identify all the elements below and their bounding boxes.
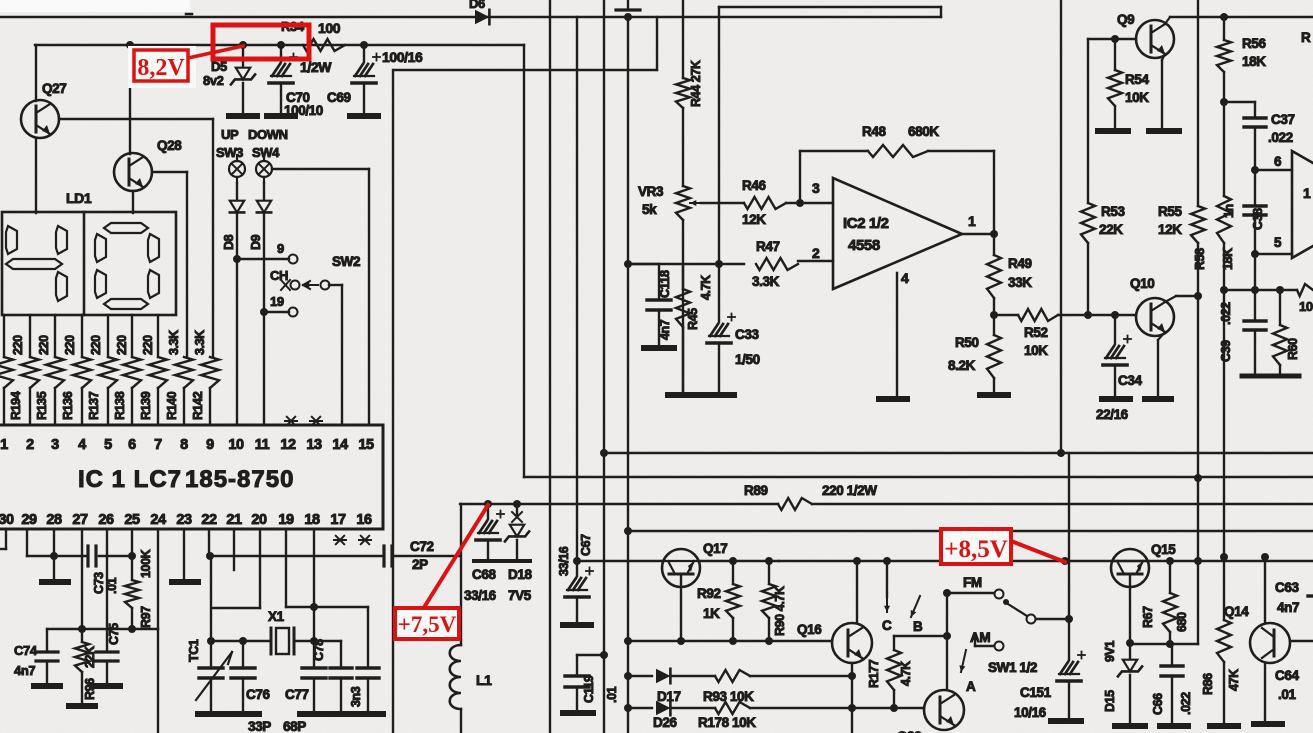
transistor Q16 <box>832 623 872 663</box>
wire B measurement arrow <box>911 596 920 617</box>
wire rail y629 <box>47 628 158 630</box>
resistor R136 220 <box>73 357 91 388</box>
resistor R90 4.7K <box>768 561 770 584</box>
resistor R45 4.7K <box>682 264 684 289</box>
red annotation box +7,5V <box>395 608 459 639</box>
wire R177 top to FM column <box>894 635 947 637</box>
LD1 right digit 0 segments <box>104 223 148 233</box>
diode D9 <box>263 183 265 200</box>
zener diode D5 8v2 <box>242 45 244 66</box>
wire pin25 down <box>131 529 133 556</box>
wire pin30 stub <box>5 529 7 549</box>
wire VR3 wiper to R46 <box>701 202 744 204</box>
node rail641 x628 <box>624 637 632 645</box>
wire bus x719 from top to pin2 node <box>718 7 720 264</box>
wire H1 rail <box>600 449 608 457</box>
LD1 left digit 4 segments <box>6 226 17 254</box>
ground C77 <box>300 711 330 717</box>
transistor Q10 <box>1136 298 1174 336</box>
resistor R92 1K <box>732 561 734 584</box>
capacitor C69 <box>363 45 365 62</box>
wire pin6 to IC3 <box>1255 169 1292 171</box>
resistor R177 4.7K <box>893 636 895 650</box>
node D15 top <box>1126 639 1134 647</box>
ground Q10 <box>1145 396 1171 402</box>
tick mark <box>186 13 192 16</box>
node Q16 emitter R178 <box>848 704 856 712</box>
node +8.5V junction <box>1061 557 1069 565</box>
wire Q14 emitter <box>1264 663 1266 722</box>
node C arrow stub <box>883 557 891 565</box>
ground C75 <box>94 683 120 689</box>
ground Q9 <box>1149 128 1179 134</box>
node R53 bottom <box>1084 311 1092 319</box>
resistor R86 47K <box>1223 557 1225 620</box>
wire Q32 base <box>894 707 924 709</box>
resistor R50 8.2K <box>993 315 995 335</box>
wire top rail L1 <box>0 16 941 18</box>
capacitor C73 <box>86 546 89 566</box>
resistor R34 100 1/2W <box>303 39 345 51</box>
transistor Q17 <box>662 549 700 587</box>
ground D5 <box>229 113 257 119</box>
wire feedback up from pin3 node <box>799 151 801 203</box>
inductor L1 <box>460 504 462 645</box>
wire bus x1224 down <box>1223 290 1225 557</box>
node D9 / terminal 19 <box>260 308 268 316</box>
wire +8.5V rail y561 <box>779 560 1313 562</box>
asterisk below pin16 <box>359 539 371 541</box>
capacitor C63 partial <box>1308 594 1313 597</box>
resistor R44 27K <box>676 78 690 108</box>
ground pin28 <box>42 579 68 585</box>
ground D15 <box>1115 723 1145 729</box>
wire rail y607 pin19 to 3n3 corner <box>286 606 368 608</box>
transistor Q32 <box>924 690 964 730</box>
wire top upper rail <box>719 6 941 8</box>
wire pin22 down <box>208 529 210 556</box>
node C119 tap on x604 <box>600 651 608 659</box>
node C33/R47 junction <box>715 260 723 268</box>
node pin6 line <box>1251 166 1259 174</box>
ground Q14 <box>1254 721 1282 727</box>
ground C69 <box>350 113 378 119</box>
node opamp pin3 <box>796 199 804 207</box>
ground C66 <box>1160 723 1188 729</box>
node output <box>990 230 998 238</box>
red annotation box 8,2V <box>134 50 188 81</box>
wire pin23 to ground <box>183 529 185 580</box>
resistor R58 18K <box>1223 102 1225 196</box>
red annotation rectangle top <box>213 25 309 59</box>
wire rail y556 to C72 <box>210 555 384 557</box>
wire Q17 rail to R92 R90 <box>700 560 779 562</box>
wire R44 to VR3 <box>682 108 684 186</box>
node bus rail561 x1198 <box>1194 557 1202 565</box>
resistor R55 12K <box>1191 206 1205 243</box>
potentiometer VR3 5k <box>676 186 690 220</box>
wire pin24 long down <box>157 529 159 733</box>
transistor Q14 <box>1250 623 1290 663</box>
node L3 C69 <box>360 41 368 49</box>
node R67 bottom <box>1166 640 1174 648</box>
wires resistors to IC1 pins 1-9 <box>3 388 5 425</box>
resistor R48 680K <box>868 145 928 157</box>
display LD1 box <box>2 212 176 315</box>
node D17 on x628 <box>624 672 632 680</box>
wire top-right rail y17 <box>1170 16 1313 18</box>
wire H4 rail <box>628 530 1313 532</box>
ground C119 <box>563 710 593 716</box>
crystal X1 <box>243 640 271 642</box>
wire C119 link <box>577 654 604 656</box>
wire Q10 emitter <box>1158 332 1165 340</box>
wire Q17 emitter <box>680 574 682 641</box>
resistor R46 12K <box>744 197 786 209</box>
node Q17 emitter <box>677 637 685 645</box>
wire to C37 <box>1224 101 1255 103</box>
ground R86 <box>1210 723 1238 729</box>
resistor R135 220 <box>46 357 64 388</box>
node R177 bottom <box>890 704 898 712</box>
resistor R54 10K <box>1114 39 1116 70</box>
capacitor C66 .022 <box>1171 644 1173 666</box>
wire R178 to R177 <box>750 707 894 709</box>
wire pin20 down then left <box>259 529 261 608</box>
node X1 right / C77 top <box>310 637 318 645</box>
wire Q10 collector to bus <box>1165 296 1176 302</box>
node D8 / terminal 9 <box>233 255 241 263</box>
trimmer TC1 <box>207 637 215 645</box>
resistor R140 3.3K <box>175 357 193 388</box>
red annotation leader +7,5V <box>423 505 488 609</box>
wire X1 node to C78 <box>314 640 341 642</box>
wire feedback top left <box>800 150 868 152</box>
wire bus x683 R44/VR3 column top <box>682 0 684 78</box>
capacitor C75 .01 <box>96 650 118 653</box>
wire Q9 collector to top rail <box>1165 17 1170 24</box>
wire left bus x393 down from L2 <box>392 70 394 733</box>
wire Q17 base rail y561 <box>577 560 662 562</box>
node FM line left <box>943 589 951 597</box>
capacitor C70 100/10 <box>280 45 282 62</box>
zener diode D18 7V5 <box>516 504 518 515</box>
resistor R97 100K <box>131 556 133 580</box>
ground R50 <box>980 392 1008 398</box>
resistor R(pin1) 220 <box>0 357 13 388</box>
switch SW1 wiper <box>1003 599 1009 605</box>
resistor R142 3.3K <box>201 357 219 388</box>
capacitor C77 68P <box>313 641 315 668</box>
capacitor C78 <box>340 641 342 668</box>
red annotation leader +8,5V <box>1011 541 1065 562</box>
node H4 start <box>624 527 632 535</box>
resistor R139 220 <box>149 357 167 388</box>
op-amp U2 IC2 1/2 4558 triangle <box>833 178 962 289</box>
wire pin5 to IC3 <box>1255 253 1292 255</box>
wire opamp output <box>962 233 994 235</box>
ground R96 <box>69 703 95 709</box>
node C37 branch <box>1220 98 1228 106</box>
node R97 bottom <box>128 625 136 633</box>
node R54 top <box>1111 35 1119 43</box>
wire Q15 emitter <box>1129 574 1131 643</box>
node pin2 rail at x628 <box>624 260 632 268</box>
transistor Q27 <box>35 45 37 101</box>
resistor R93 10K <box>715 670 750 682</box>
ground C33 <box>704 392 734 398</box>
zener diode D15 9V1 <box>1129 644 1131 658</box>
node Q14 collector <box>1261 553 1269 561</box>
node pin28 rail <box>50 552 58 560</box>
wire bus x1198 <box>1197 0 1199 206</box>
ground C151 <box>1051 718 1081 724</box>
node pin25 / R97 top <box>128 552 136 560</box>
IC U1 IC1 LC7185-8750 box <box>0 425 383 529</box>
wire y290 node line <box>1254 254 1256 290</box>
wire y644 node line <box>1130 643 1198 645</box>
wire Q28 base to pin8 column <box>152 171 187 173</box>
wire D9 to pin11 <box>263 312 265 425</box>
wire feedback top right <box>928 150 994 152</box>
wire pin21 stub <box>233 529 235 570</box>
resistor R52 10K <box>994 314 1018 316</box>
resistor R67 680 <box>1169 561 1171 593</box>
wire bus x577 <box>576 17 578 561</box>
switch SW1 AM contact <box>995 642 1004 651</box>
switch SW3 UP <box>229 161 245 177</box>
wire L3 corner down at x524 (to H2) <box>523 45 525 477</box>
capacitor stub at top edge <box>627 0 629 10</box>
ground C34 <box>1102 396 1130 402</box>
wire R93 to Q16 emitter <box>750 675 852 677</box>
IC U3 triangle partial <box>1292 151 1313 258</box>
resistor R56 18K <box>1223 17 1225 40</box>
wire Q27 emitter to LD1 <box>35 138 37 213</box>
ground C70 <box>267 113 295 119</box>
resistor R49 33K <box>993 234 995 255</box>
wire Q16 collector down <box>856 561 858 623</box>
node pin27 rail629 <box>78 625 86 633</box>
wire bus x604 <box>603 0 605 733</box>
wire rail y641 Q16 base <box>628 640 832 642</box>
node wiper bus <box>1065 615 1073 623</box>
resistor R96 22K <box>81 629 83 642</box>
capacitor C39 .022 <box>1254 290 1256 321</box>
wire pin29 stub <box>26 529 28 556</box>
transistor Q28 <box>129 45 131 154</box>
wire pin27 down <box>81 529 83 629</box>
diode D26 <box>628 707 652 709</box>
wire Q9 emitter <box>1162 54 1165 60</box>
ground pin23 <box>172 579 198 585</box>
wire pin18 down to X1 right node <box>313 529 315 641</box>
ground C118 <box>644 345 674 351</box>
wire C measurement arrow <box>886 561 888 597</box>
wire R47 to pin2 <box>798 260 833 262</box>
resistor R47 3.3K <box>756 258 798 270</box>
node +7.5V junction C68 <box>484 500 492 508</box>
wire pin28 to ground <box>53 529 55 582</box>
wire L2 rail <box>395 69 657 71</box>
resistor R60 <box>1279 290 1281 325</box>
node Q16 emitter R93 <box>848 672 856 680</box>
capacitor C119 .01 <box>576 655 578 676</box>
ground C76 <box>229 711 259 717</box>
capacitor C67 33/16 on bus x577 <box>573 557 581 565</box>
node on L1 at bus x628 <box>624 13 632 21</box>
asterisk below pin17 <box>334 539 346 541</box>
capacitor C37 .022 <box>1254 102 1256 118</box>
wire 3n3 corner down <box>367 607 369 668</box>
wire L2 stub up to L1 <box>656 17 658 70</box>
node L3/Q27 branch <box>126 41 134 49</box>
wire R46 to pin3 node <box>786 202 833 204</box>
white patches <box>0 0 190 12</box>
node pin18 on rail607 <box>310 603 318 611</box>
capacitor C151 10/16 <box>1068 619 1070 660</box>
node pin22 rail556 <box>206 552 214 560</box>
red annotation leader 8,2V <box>188 46 243 58</box>
wire pin2 rail <box>628 263 744 265</box>
resistor R137 220 <box>99 357 117 388</box>
wire Q32 collector column <box>946 593 948 690</box>
asterisk pin13 <box>310 420 322 422</box>
ground pin4 <box>879 396 907 402</box>
resistor R53 22K <box>1087 39 1089 203</box>
node L3 C70 <box>277 41 285 49</box>
transistor Q9 <box>1136 20 1174 58</box>
transistor Q15 <box>1111 549 1149 587</box>
wire bus x550 <box>549 0 551 733</box>
capacitor C72 2P <box>382 546 385 566</box>
wire Q27 base to pin9 column <box>59 118 213 120</box>
node R67 top <box>1166 557 1174 565</box>
node C34/Q10 base <box>1111 311 1119 319</box>
resistor partial right edge <box>1297 284 1313 296</box>
resistor R194 220 <box>21 357 39 388</box>
wire SW4 to pin15 <box>272 168 369 170</box>
node D18 top <box>513 500 521 508</box>
node D26 on x628 <box>624 704 632 712</box>
wire pin19 down <box>285 529 287 607</box>
capacitor C38 1n <box>1254 170 1256 206</box>
wire Q14 collector <box>1264 557 1266 623</box>
node pin5 line <box>1251 250 1259 258</box>
node Q16 collector <box>853 557 861 565</box>
wire pin26 down to C75 <box>106 529 108 652</box>
ground C74 <box>34 683 60 689</box>
wire opamp pin4 ground <box>896 273 898 397</box>
node C76 top <box>239 637 247 645</box>
node R177/Q32 join <box>943 632 951 640</box>
resistor R178 10K <box>715 702 750 714</box>
wire Q16 emitter <box>851 663 853 733</box>
diode D6 <box>475 10 489 24</box>
node Q10 collector bus <box>1194 292 1202 300</box>
resistor R138 220 <box>123 357 141 388</box>
capacitor 3n3 <box>357 666 379 669</box>
node R56 top <box>1220 13 1228 21</box>
switch SW4 DOWN <box>256 161 272 177</box>
wire H3 rail +7.5V left <box>460 503 778 505</box>
ground R54 <box>1098 128 1128 134</box>
capacitor C33 1/50 <box>718 264 720 322</box>
switch SW1 FM contact <box>951 592 994 594</box>
node R86 top <box>1220 553 1228 561</box>
wire Q9 base line <box>1088 38 1136 40</box>
capacitor C76 33P <box>242 641 244 668</box>
ground 3n3 <box>355 711 383 717</box>
wire TC1 column down from pin22 node <box>210 556 212 641</box>
node bus x1198 H2 <box>1194 474 1202 482</box>
wire VR3 bottom to ground <box>682 220 684 393</box>
ground TC1 <box>198 711 228 717</box>
node R49/R50/R52 <box>990 311 998 319</box>
wire bus x1198 rail to 644 <box>1197 561 1199 644</box>
capacitor C34 22/16 <box>1114 315 1116 344</box>
red annotation box +8,5V <box>941 529 1011 564</box>
wire SW2 to pin14 <box>329 284 342 286</box>
wire top step vertical <box>940 7 942 17</box>
wire rail L3 <box>35 44 524 46</box>
wire bus x1069 down to +8.5 rail <box>1068 453 1070 619</box>
node R90 top <box>765 557 773 565</box>
node R92 top <box>729 557 737 565</box>
node bus x1061 H1 <box>1057 449 1065 457</box>
ground C39 R60 <box>1242 374 1299 379</box>
asterisk pin12 <box>285 420 297 422</box>
ground C78 <box>328 711 356 717</box>
wires display pins to resistors <box>3 315 5 357</box>
capacitor C68 33/16 <box>487 504 489 519</box>
diode D8 <box>236 183 238 200</box>
capacitor C74 4n7 <box>46 629 48 652</box>
wire Q14 base to edge <box>1290 640 1313 642</box>
wire R52 to Q10 base <box>1058 314 1136 316</box>
node L3 D5 <box>239 41 247 49</box>
wire H3 rail right <box>812 503 1313 505</box>
wire H2 rail <box>524 476 1313 478</box>
diode D17 <box>628 675 652 677</box>
resistor R89 220 1/2W <box>778 498 812 510</box>
capacitor C118 4n7 <box>628 263 659 265</box>
wire bus x628 <box>627 17 629 733</box>
wire Q28 emitter to LD1 <box>132 191 134 213</box>
wire A arrow <box>961 650 966 672</box>
ground VR3 <box>668 392 698 398</box>
ground C67 <box>563 622 591 628</box>
wire bus x1061 top <box>1060 0 1062 451</box>
